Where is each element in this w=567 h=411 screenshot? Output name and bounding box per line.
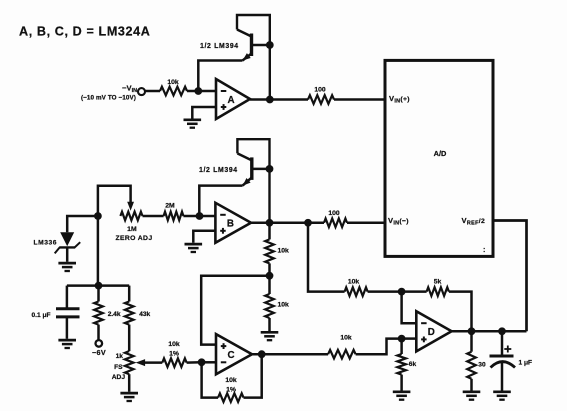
ground below 0.1uF (58, 340, 76, 348)
wiper loop of ZERO ADJ pot (98, 186, 131, 216)
resistor 10k (C output to D +) (328, 350, 356, 359)
wire R 10k to op-amp A inverting input (187, 90, 216, 93)
resistor 10k (upper divider) (265, 239, 274, 263)
svg-text:A: A (227, 95, 234, 106)
wire LM336 to ground (66, 247, 69, 261)
svg-text:VREF/2: VREF/2 (462, 216, 486, 227)
node: op-amp C inverting input (198, 358, 206, 366)
svg-text:10k: 10k (225, 377, 237, 384)
transistor Q1 1/2 LM394 (250, 34, 253, 57)
A/D converter block (385, 60, 493, 256)
wire B output down to R 10k divider (268, 223, 271, 240)
resistor 10k 1% (C feedback) (202, 362, 219, 397)
capacitor 0.1 uF (66, 286, 69, 308)
resistor 10k (lower divider) (265, 294, 274, 318)
transistor Q2 1/2 LM394 (250, 157, 253, 180)
svg-text:10k: 10k (167, 79, 179, 86)
node: op-amp A output (266, 96, 274, 104)
svg-text:1 μF: 1 μF (519, 360, 533, 367)
wire divider midpoint to op-amp C + input (201, 276, 269, 345)
wire to divider midpoint node (268, 263, 271, 294)
input terminal -VIN (138, 88, 145, 95)
wire C inverting node to triangle (202, 361, 216, 364)
resistor 1k FS ADJ potentiometer (125, 351, 134, 374)
wire op-amp A output to R 100 (250, 98, 308, 101)
ground below 30 (463, 392, 481, 400)
resistor 6k (D + to ground) (400, 339, 403, 354)
node: D inverting junction (398, 288, 406, 296)
svg-text:B: B (227, 219, 234, 230)
svg-text:LM336: LM336 (34, 240, 58, 247)
wire op-amp B output to R 100 (251, 222, 324, 225)
node: op-amp A summing junction (194, 87, 202, 95)
wire R 100 to A/D VIN(+) (334, 98, 385, 101)
op-amp B (215, 203, 251, 243)
svg-text:100: 100 (314, 87, 326, 94)
wire R 10k to D inverting node (368, 290, 402, 293)
resistor 100 (B output to A/D VIN-) (324, 219, 347, 228)
ground below LM336 (58, 263, 76, 271)
resistor 2M (164, 212, 184, 221)
wire rail to LM336 (67, 216, 98, 232)
resistor 10k (to D inverting input) (345, 287, 368, 296)
svg-text::: : (483, 247, 485, 254)
svg-text:10k: 10k (168, 341, 180, 348)
wire emitter of Q1 down to summing node (198, 61, 242, 92)
svg-text:10k: 10k (340, 334, 352, 341)
resistor 30 (470, 331, 473, 351)
wire 43k to FS ADJ pot (128, 325, 131, 352)
svg-text:1%: 1% (169, 351, 179, 358)
wire collector loop of Q2 to op-amp B output (237, 139, 269, 223)
svg-text:D: D (428, 327, 435, 338)
op-amp A (216, 79, 250, 119)
ground below 6k (393, 392, 411, 400)
resistor 43k (128, 286, 131, 302)
node: cap junction (498, 327, 506, 335)
wire D inverting node to - input (402, 292, 417, 324)
wire emitter of Q2 down to summing node (199, 186, 242, 216)
ground at op-amp B + input (185, 244, 203, 252)
svg-text:30: 30 (478, 362, 486, 369)
svg-text:FS: FS (114, 364, 123, 371)
node: Q1 base junction (266, 41, 274, 49)
ground below FS ADJ pot (120, 393, 138, 401)
svg-text:1M: 1M (127, 226, 137, 233)
wire collector loop of Q1 to op-amp A output (237, 15, 270, 100)
svg-text:VIN(−): VIN(−) (388, 216, 409, 227)
svg-text:43k: 43k (139, 311, 150, 318)
svg-text:100: 100 (328, 210, 340, 217)
svg-text:ZERO ADJ: ZERO ADJ (116, 235, 153, 242)
svg-text:1/2 LM394: 1/2 LM394 (199, 167, 238, 174)
svg-text:A/D: A/D (434, 149, 447, 158)
svg-text:10k: 10k (348, 279, 360, 286)
wire op-amp B + input to ground (193, 231, 215, 243)
wire R 100 to A/D VIN(-) (347, 222, 385, 225)
svg-text:1/2 LM394: 1/2 LM394 (200, 43, 239, 50)
svg-text:5k: 5k (434, 279, 442, 286)
resistor 10k (input to A) (160, 87, 187, 96)
wire pot to R 2M (143, 215, 164, 218)
svg-text:ADJ: ADJ (112, 374, 126, 381)
wire lower 10k to ground (268, 318, 271, 331)
node: D + input junction (398, 335, 406, 343)
svg-text:2.4k: 2.4k (108, 311, 121, 318)
wire op-amp A + input to ground (192, 107, 216, 119)
ground below divider (261, 332, 279, 340)
capacitor 1 uF polarized (501, 331, 504, 355)
op-amp D (416, 311, 451, 351)
svg-text:10k: 10k (278, 248, 290, 255)
wire R 2M to op-amp B summing node (183, 215, 215, 218)
op-amp C (216, 334, 252, 374)
node: op-amp B output (266, 219, 274, 227)
svg-text:10k: 10k (278, 302, 290, 309)
wire zero-adj node down to -6V rail (97, 216, 100, 286)
wire C output to R 10k (252, 353, 328, 356)
-6V rail node (95, 282, 103, 290)
svg-text:C: C (227, 350, 234, 361)
svg-text:6k: 6k (409, 361, 417, 368)
svg-text:−6V: −6V (92, 348, 106, 357)
ground below 1uF (493, 392, 511, 400)
node: divider midpoint (266, 272, 274, 280)
wire R 10k to D + node (356, 339, 402, 355)
ground at op-amp A + input (184, 120, 202, 128)
wire -6V rail (67, 284, 129, 287)
node: zero adj rail (94, 212, 102, 220)
resistor 100 (A output to A/D VIN+) (308, 95, 334, 104)
FS ADJ wiper arrow (136, 359, 146, 366)
wire input terminal to R 10k (145, 90, 160, 93)
svg-text:1%: 1% (226, 387, 236, 394)
node: Q2 base junction (266, 165, 274, 173)
wire + node into D (402, 337, 417, 340)
node: op-amp B summing junction (196, 212, 204, 220)
resistor 10k 1% (wiper to C-) (162, 358, 186, 367)
svg-text:0.1 μF: 0.1 μF (32, 312, 51, 319)
svg-text:(−10 mV TO −10V): (−10 mV TO −10V) (81, 95, 136, 102)
svg-text:−VIN: −VIN (122, 84, 137, 95)
wire B output node down to R 10k (to D-) (308, 223, 345, 292)
resistor 5k (D feedback) (427, 287, 449, 296)
wire R 10k 1% to C inverting node (187, 361, 202, 364)
wire VREF/2 feedback to A/D (493, 221, 527, 332)
wire D output (452, 330, 527, 333)
diode LM336 reference (60, 232, 74, 246)
-6V terminal (97, 325, 100, 341)
resistor 1M potentiometer ZERO ADJ (120, 212, 142, 221)
resistor 2.4k (97, 286, 100, 302)
wire pot to ground (128, 374, 131, 392)
svg-text:VIN(+): VIN(+) (389, 94, 410, 105)
svg-text:2M: 2M (165, 203, 175, 210)
node: op-amp C output (258, 350, 266, 358)
svg-text:A, B, C, D = LM324A: A, B, C, D = LM324A (19, 25, 150, 39)
wire 5k to D output (449, 292, 472, 332)
node: D output (468, 327, 476, 335)
node: B output branch to comparator network (304, 219, 312, 227)
svg-text:1k: 1k (116, 353, 124, 360)
